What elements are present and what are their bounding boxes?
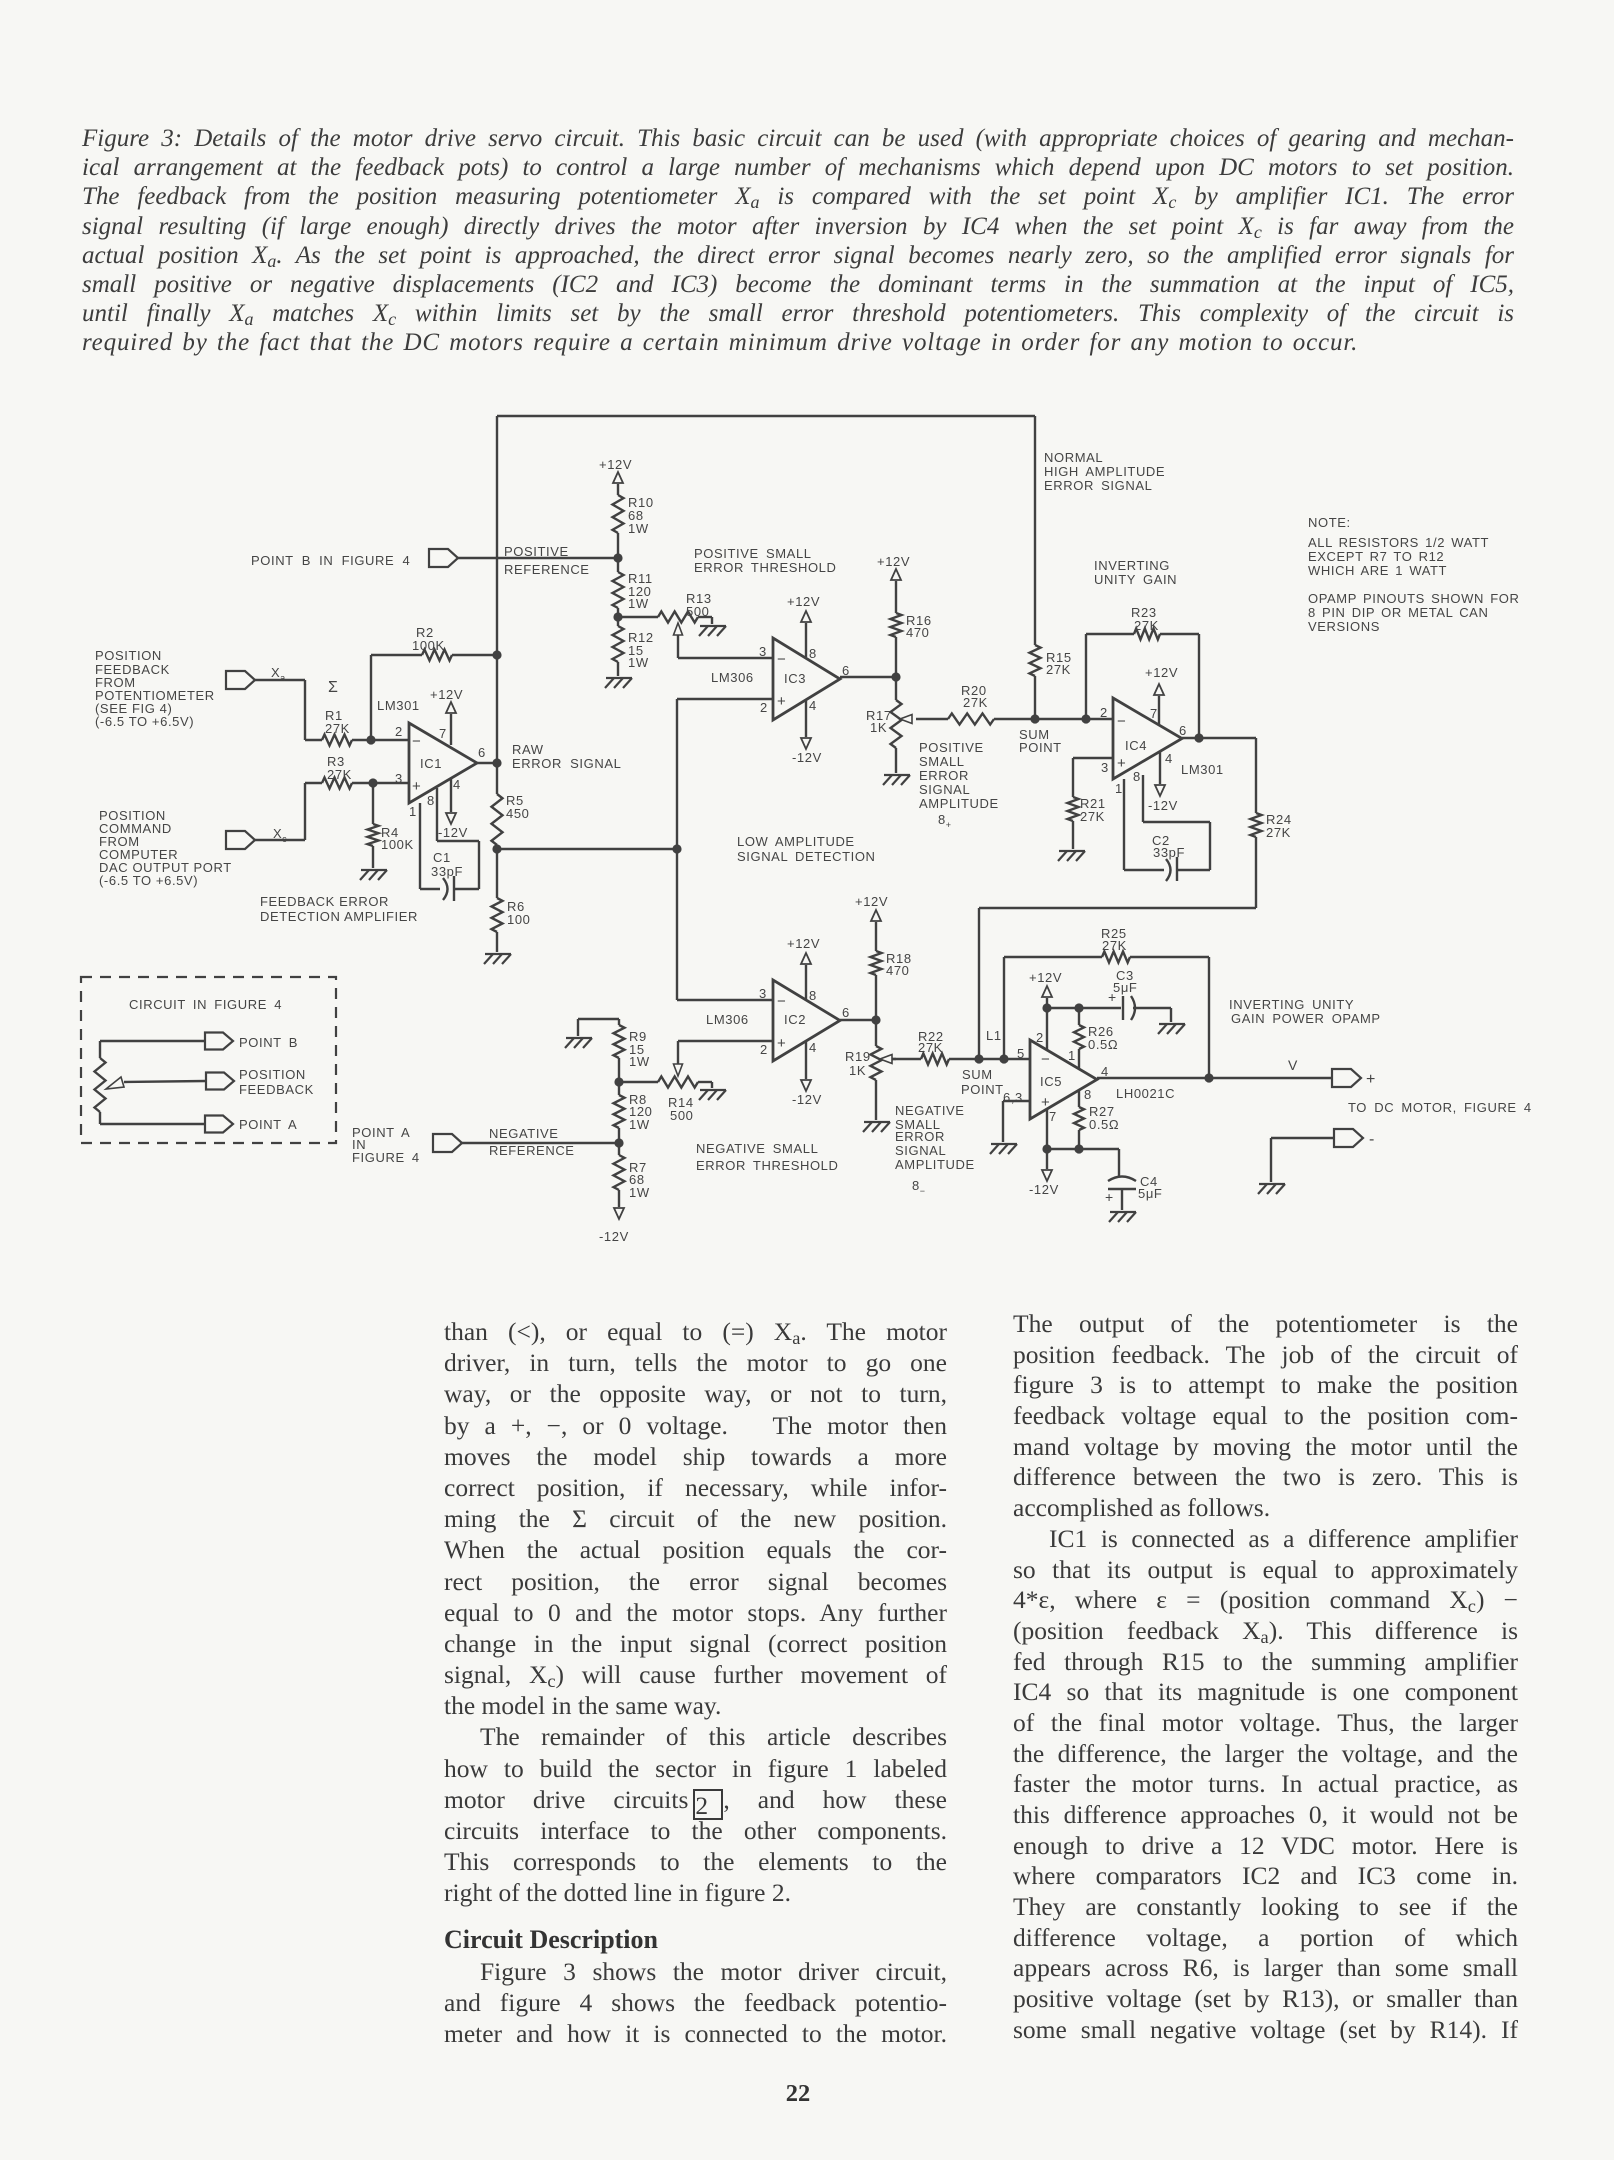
svg-text:FEEDBACK ERROR: FEEDBACK ERROR [260, 894, 389, 909]
svg-text:470: 470 [886, 963, 910, 978]
svg-text:-12V: -12V [792, 750, 822, 765]
svg-text:FIGURE 4: FIGURE 4 [352, 1150, 420, 1165]
svg-text:8−: 8− [912, 1178, 926, 1196]
svg-text:−: − [777, 993, 786, 1010]
svg-text:NEGATIVE: NEGATIVE [895, 1103, 965, 1118]
svg-text:450: 450 [506, 806, 530, 821]
svg-text:IC5: IC5 [1040, 1074, 1062, 1089]
svg-text:0.5Ω: 0.5Ω [1089, 1117, 1119, 1132]
svg-text:100: 100 [507, 912, 531, 927]
svg-text:27K: 27K [1080, 809, 1105, 824]
svg-text:ERROR: ERROR [895, 1129, 945, 1144]
svg-text:2: 2 [1100, 705, 1108, 720]
svg-text:5μF: 5μF [1138, 1186, 1162, 1201]
svg-text:1W: 1W [628, 655, 649, 670]
svg-text:4: 4 [1101, 1064, 1109, 1079]
svg-text:470: 470 [906, 625, 930, 640]
svg-text:AMPLITUDE: AMPLITUDE [919, 796, 999, 811]
svg-text:POINT: POINT [1019, 740, 1062, 755]
svg-text:POSITIVE SMALL: POSITIVE SMALL [694, 546, 812, 561]
svg-text:6: 6 [478, 745, 486, 760]
svg-text:IC4: IC4 [1125, 738, 1147, 753]
svg-text:100K: 100K [381, 837, 414, 852]
svg-text:4: 4 [453, 777, 461, 792]
svg-text:LM306: LM306 [711, 670, 754, 685]
svg-text:RAW: RAW [512, 742, 544, 757]
svg-text:8: 8 [809, 646, 817, 661]
svg-text:LM306: LM306 [706, 1012, 749, 1027]
svg-text:7: 7 [1150, 706, 1158, 721]
svg-text:1: 1 [409, 804, 417, 819]
svg-text:SIGNAL DETECTION: SIGNAL DETECTION [737, 849, 876, 864]
svg-text:FEEDBACK: FEEDBACK [239, 1082, 314, 1097]
svg-text:ERROR THRESHOLD: ERROR THRESHOLD [694, 560, 837, 575]
svg-text:WHICH ARE 1 WATT: WHICH ARE 1 WATT [1308, 563, 1447, 578]
svg-text:+: + [412, 778, 421, 795]
svg-text:1K: 1K [870, 720, 887, 735]
svg-text:C1: C1 [433, 850, 451, 865]
svg-text:POINT B IN FIGURE 4: POINT B IN FIGURE 4 [251, 553, 410, 568]
svg-text:INVERTING: INVERTING [1094, 558, 1170, 573]
svg-text:ALL RESISTORS 1/2 WATT: ALL RESISTORS 1/2 WATT [1308, 535, 1489, 550]
svg-text:8+: 8+ [938, 812, 952, 830]
svg-text:1: 1 [1115, 781, 1123, 796]
svg-text:27K: 27K [327, 767, 352, 782]
svg-text:-12V: -12V [1148, 798, 1178, 813]
svg-text:IC3: IC3 [784, 671, 806, 686]
svg-text:+12V: +12V [877, 554, 910, 569]
svg-text:LM301: LM301 [1181, 762, 1224, 777]
svg-text:2: 2 [760, 700, 768, 715]
svg-text:-12V: -12V [438, 825, 468, 840]
svg-text:VERSIONS: VERSIONS [1308, 619, 1380, 634]
svg-text:100K: 100K [412, 638, 445, 653]
svg-text:POINT: POINT [961, 1082, 1004, 1097]
svg-text:0.5Ω: 0.5Ω [1088, 1037, 1118, 1052]
svg-text:+12V: +12V [599, 457, 632, 472]
svg-text:33pF: 33pF [1153, 845, 1185, 860]
svg-text:TO DC MOTOR, FIGURE 4: TO DC MOTOR, FIGURE 4 [1348, 1100, 1532, 1115]
svg-text:−: − [777, 651, 786, 668]
svg-text:6,3: 6,3 [1003, 1090, 1023, 1105]
svg-text:Xc: Xc [273, 826, 287, 844]
svg-text:8: 8 [1133, 769, 1141, 784]
svg-text:4: 4 [1165, 751, 1173, 766]
svg-text:5μF: 5μF [1113, 980, 1137, 995]
svg-text:CIRCUIT IN FIGURE 4: CIRCUIT IN FIGURE 4 [129, 997, 282, 1012]
svg-text:LOW AMPLITUDE: LOW AMPLITUDE [737, 834, 855, 849]
svg-text:+: + [1366, 1071, 1376, 1088]
svg-text:+12V: +12V [1029, 970, 1062, 985]
svg-text:IC1: IC1 [420, 756, 442, 771]
svg-text:−: − [1041, 1051, 1050, 1068]
svg-text:6: 6 [1179, 723, 1187, 738]
svg-text:UNITY GAIN: UNITY GAIN [1094, 572, 1177, 587]
svg-text:2: 2 [395, 724, 403, 739]
svg-text:IC2: IC2 [784, 1012, 806, 1027]
svg-text:(-6.5 TO +6.5V): (-6.5 TO +6.5V) [95, 714, 194, 729]
svg-text:OPAMP PINOUTS SHOWN FOR: OPAMP PINOUTS SHOWN FOR [1308, 591, 1519, 606]
svg-text:ERROR SIGNAL: ERROR SIGNAL [1044, 478, 1152, 493]
svg-text:INVERTING UNITY: INVERTING UNITY [1229, 997, 1354, 1012]
svg-text:1W: 1W [629, 1185, 650, 1200]
svg-text:3: 3 [395, 771, 403, 786]
svg-text:8: 8 [1084, 1087, 1092, 1102]
svg-text:SUM: SUM [962, 1067, 993, 1082]
svg-text:1W: 1W [628, 596, 649, 611]
svg-text:POSITIVE: POSITIVE [919, 740, 984, 755]
svg-text:500: 500 [686, 604, 710, 619]
svg-text:SIGNAL: SIGNAL [895, 1143, 946, 1158]
svg-text:3: 3 [1101, 760, 1109, 775]
svg-text:+: + [777, 1035, 786, 1052]
svg-text:-: - [1369, 1131, 1375, 1148]
svg-text:POINT B: POINT B [239, 1035, 298, 1050]
svg-text:NORMAL: NORMAL [1044, 450, 1103, 465]
svg-text:GAIN POWER OPAMP: GAIN POWER OPAMP [1231, 1011, 1381, 1026]
svg-text:3: 3 [759, 644, 767, 659]
svg-text:7: 7 [1049, 1109, 1057, 1124]
svg-text:33pF: 33pF [431, 864, 463, 879]
svg-text:-12V: -12V [1029, 1182, 1059, 1197]
svg-text:−: − [412, 733, 421, 750]
svg-text:1W: 1W [629, 1054, 650, 1069]
svg-text:SMALL: SMALL [919, 754, 965, 769]
svg-text:+: + [1105, 1189, 1114, 1205]
svg-text:27K: 27K [325, 721, 350, 736]
svg-text:27K: 27K [918, 1040, 943, 1055]
svg-text:REFERENCE: REFERENCE [504, 562, 590, 577]
svg-text:+12V: +12V [787, 936, 820, 951]
svg-text:5: 5 [1017, 1046, 1025, 1061]
svg-text:4: 4 [809, 698, 817, 713]
svg-text:500: 500 [670, 1108, 694, 1123]
svg-text:1W: 1W [628, 521, 649, 536]
svg-text:3: 3 [759, 986, 767, 1001]
svg-text:L1: L1 [986, 1028, 1002, 1043]
svg-text:27K: 27K [1134, 618, 1159, 633]
svg-text:NEGATIVE: NEGATIVE [489, 1126, 559, 1141]
svg-text:8 PIN DIP OR METAL CAN: 8 PIN DIP OR METAL CAN [1308, 605, 1488, 620]
svg-text:LM301: LM301 [377, 698, 420, 713]
svg-text:2: 2 [760, 1042, 768, 1057]
svg-text:-12V: -12V [599, 1229, 629, 1244]
svg-text:+12V: +12V [855, 894, 888, 909]
svg-text:27K: 27K [963, 695, 988, 710]
svg-text:27K: 27K [1046, 662, 1071, 677]
svg-text:POSITION: POSITION [239, 1067, 306, 1082]
svg-text:6: 6 [842, 1005, 850, 1020]
svg-text:EXCEPT R7 TO R12: EXCEPT R7 TO R12 [1308, 549, 1444, 564]
svg-text:POINT A: POINT A [239, 1117, 297, 1132]
svg-text:+12V: +12V [430, 687, 463, 702]
svg-text:−: − [1117, 713, 1126, 730]
svg-text:1: 1 [1068, 1048, 1076, 1063]
svg-text:-12V: -12V [792, 1092, 822, 1107]
svg-text:+12V: +12V [787, 594, 820, 609]
svg-text:7: 7 [439, 726, 447, 741]
svg-text:R19: R19 [845, 1049, 871, 1064]
svg-text:HIGH AMPLITUDE: HIGH AMPLITUDE [1044, 464, 1165, 479]
svg-text:8: 8 [427, 793, 435, 808]
svg-text:AMPLITUDE: AMPLITUDE [895, 1157, 975, 1172]
svg-text:REFERENCE: REFERENCE [489, 1143, 575, 1158]
svg-text:DETECTION AMPLIFIER: DETECTION AMPLIFIER [260, 909, 418, 924]
svg-text:(-6.5 TO +6.5V): (-6.5 TO +6.5V) [99, 873, 198, 888]
svg-text:1W: 1W [629, 1117, 650, 1132]
svg-text:POSITION: POSITION [95, 648, 162, 663]
svg-text:6: 6 [842, 663, 850, 678]
svg-text:+: + [1117, 755, 1126, 772]
svg-text:+: + [777, 693, 786, 710]
svg-text:NEGATIVE SMALL: NEGATIVE SMALL [696, 1141, 818, 1156]
svg-text:Σ: Σ [328, 679, 339, 696]
svg-text:POSITIVE: POSITIVE [504, 544, 569, 559]
svg-text:V: V [1288, 1057, 1298, 1073]
svg-text:8: 8 [809, 988, 817, 1003]
svg-text:+12V: +12V [1145, 665, 1178, 680]
svg-text:4: 4 [809, 1040, 817, 1055]
svg-text:ERROR: ERROR [919, 768, 969, 783]
svg-text:27K: 27K [1266, 825, 1291, 840]
svg-text:2: 2 [1036, 1030, 1044, 1045]
svg-text:ERROR SIGNAL: ERROR SIGNAL [512, 756, 621, 771]
svg-text:1K: 1K [849, 1063, 866, 1078]
svg-text:27K: 27K [1102, 938, 1127, 953]
svg-text:SIGNAL: SIGNAL [919, 782, 970, 797]
svg-text:LH0021C: LH0021C [1116, 1086, 1175, 1101]
svg-text:NOTE:: NOTE: [1308, 515, 1351, 530]
svg-text:ERROR THRESHOLD: ERROR THRESHOLD [696, 1158, 839, 1173]
